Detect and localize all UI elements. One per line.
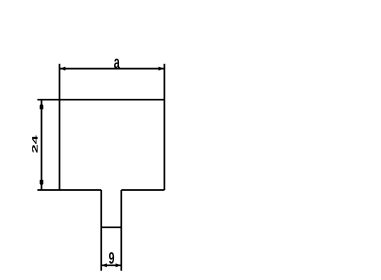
svg-text:9: 9 — [109, 248, 115, 267]
svg-text:24: 24 — [31, 134, 40, 153]
svg-text:a: a — [114, 54, 121, 73]
